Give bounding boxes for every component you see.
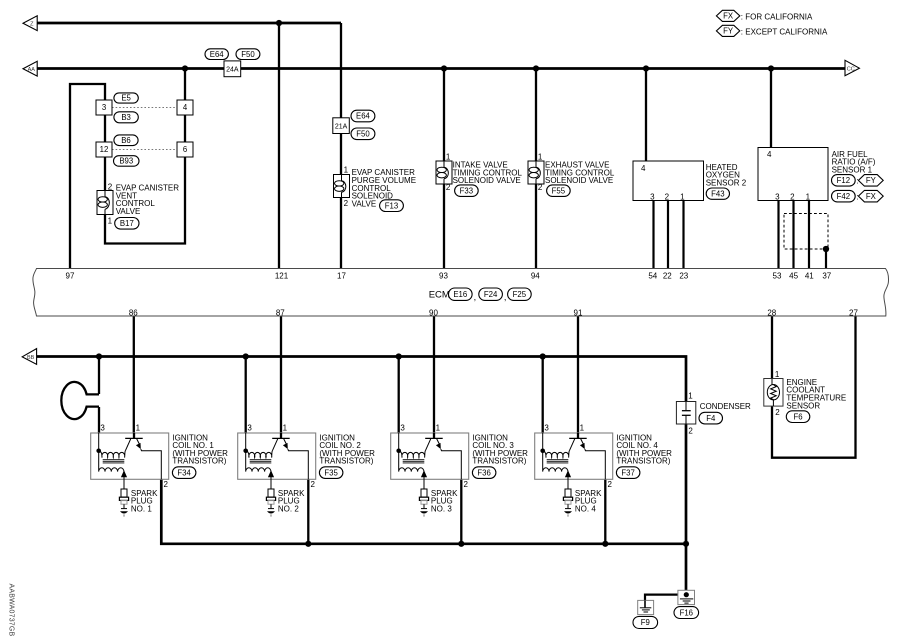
svg-text:B93: B93 [119,157,133,166]
svg-text:3: 3 [400,424,405,433]
svg-text:3: 3 [102,103,106,112]
svg-text:3: 3 [100,424,105,433]
svg-text:AABWA0737GB: AABWA0737GB [7,584,14,637]
svg-text:TRANSISTOR): TRANSISTOR) [319,457,373,466]
svg-text:SOLENOID VALVE: SOLENOID VALVE [545,176,613,185]
svg-text:F24: F24 [484,290,498,299]
svg-text:1: 1 [446,153,451,162]
svg-text:24A: 24A [226,66,239,73]
svg-text:4: 4 [767,150,772,159]
svg-text:TRANSISTOR): TRANSISTOR) [172,457,226,466]
svg-text:87: 87 [276,308,285,317]
svg-text:2: 2 [164,480,169,489]
svg-text:: FOR CALIFORNIA: : FOR CALIFORNIA [741,13,813,22]
svg-text:SENSOR: SENSOR [786,401,820,410]
svg-text:SENSOR 1: SENSOR 1 [832,166,873,175]
svg-text:F12: F12 [837,176,850,185]
svg-text:1: 1 [283,424,288,433]
svg-text:NO. 2: NO. 2 [278,505,299,514]
svg-text:SENSOR 2: SENSOR 2 [706,178,747,187]
svg-text:F42: F42 [837,192,850,201]
svg-text:F37: F37 [621,468,634,477]
svg-text:,: , [474,292,477,302]
svg-text:4: 4 [641,164,646,173]
svg-text:2: 2 [344,199,349,208]
svg-text:1: 1 [136,424,141,433]
svg-text:F16: F16 [680,608,693,617]
svg-text:F35: F35 [324,468,338,477]
svg-text:1: 1 [108,216,113,225]
svg-text:CC: CC [847,66,855,72]
svg-text:86: 86 [129,308,138,317]
svg-text:F25: F25 [513,290,527,299]
svg-text::: : [856,177,858,186]
svg-text:F36: F36 [477,468,490,477]
svg-text:17: 17 [337,271,346,280]
svg-text:BB: BB [27,355,35,361]
svg-text:B17: B17 [120,219,134,228]
svg-text:E5: E5 [121,94,131,103]
svg-text:93: 93 [439,271,448,280]
svg-text:21A: 21A [335,123,348,130]
svg-text:2: 2 [311,480,316,489]
svg-text:45: 45 [789,271,798,280]
svg-text:12: 12 [100,145,109,154]
svg-text:ECM: ECM [429,290,450,301]
svg-text:FY: FY [866,176,877,185]
svg-text:4: 4 [183,103,188,112]
svg-text:,: , [504,292,507,302]
svg-text:2: 2 [464,480,469,489]
svg-text:B6: B6 [121,136,131,145]
svg-text:F50: F50 [241,50,255,59]
svg-text:TRANSISTOR): TRANSISTOR) [472,457,526,466]
svg-text:3: 3 [247,424,252,433]
svg-text:53: 53 [773,271,782,280]
svg-text:F43: F43 [711,189,724,198]
svg-text:: EXCEPT CALIFORNIA: : EXCEPT CALIFORNIA [741,28,828,37]
svg-text:FX: FX [723,12,734,21]
svg-text:FX: FX [866,192,877,201]
svg-text:2: 2 [665,193,670,202]
svg-text:F55: F55 [552,186,566,195]
svg-text:27: 27 [849,308,858,317]
svg-text:2: 2 [446,183,451,192]
svg-text:1: 1 [680,193,685,202]
svg-text:2: 2 [608,480,613,489]
svg-text:22: 22 [663,271,672,280]
svg-text:37: 37 [822,271,831,280]
svg-text:97: 97 [66,271,75,280]
svg-text:2: 2 [538,183,543,192]
svg-text:6: 6 [183,145,187,154]
svg-text:1: 1 [436,424,441,433]
svg-text:F9: F9 [641,618,650,627]
svg-text:23: 23 [679,271,688,280]
svg-text:NO. 1: NO. 1 [131,505,152,514]
svg-text:TRANSISTOR): TRANSISTOR) [616,457,670,466]
svg-text:1: 1 [344,166,349,175]
svg-text:91: 91 [574,308,583,317]
svg-text:54: 54 [648,271,657,280]
svg-text:F13: F13 [385,201,398,210]
svg-text:F4: F4 [706,414,716,423]
svg-text:2: 2 [790,193,795,202]
svg-text:AA: AA [28,67,36,73]
svg-text:94: 94 [531,271,540,280]
svg-text:F33: F33 [460,186,473,195]
svg-text:FY: FY [723,27,734,36]
svg-text:SOLENOID VALVE: SOLENOID VALVE [453,176,521,185]
svg-text:1: 1 [775,370,780,379]
svg-text:E64: E64 [356,112,371,121]
svg-text:VALVE: VALVE [116,207,141,216]
svg-text:28: 28 [767,308,776,317]
svg-text:NO. 3: NO. 3 [431,505,452,514]
svg-text:3: 3 [650,193,655,202]
svg-text:121: 121 [275,271,289,280]
svg-text:VALVE: VALVE [352,199,377,208]
svg-text:NO. 4: NO. 4 [575,505,596,514]
svg-text:2: 2 [688,426,693,435]
svg-text:1: 1 [688,391,693,400]
svg-text:3: 3 [775,193,780,202]
svg-text:CONDENSER: CONDENSER [700,402,751,411]
svg-text:F6: F6 [793,412,802,421]
svg-text:E64: E64 [210,50,225,59]
svg-text:F50: F50 [356,130,370,139]
svg-text:E16: E16 [453,290,467,299]
svg-text:1: 1 [538,153,543,162]
svg-text::: : [856,192,858,201]
svg-text:2: 2 [775,408,780,417]
svg-text:3: 3 [544,424,549,433]
svg-text:41: 41 [805,271,814,280]
svg-text:90: 90 [429,308,438,317]
svg-text:2: 2 [108,182,113,191]
svg-text:F34: F34 [177,468,191,477]
svg-text:B3: B3 [121,113,131,122]
svg-text:1: 1 [806,193,811,202]
svg-text:1: 1 [580,424,585,433]
